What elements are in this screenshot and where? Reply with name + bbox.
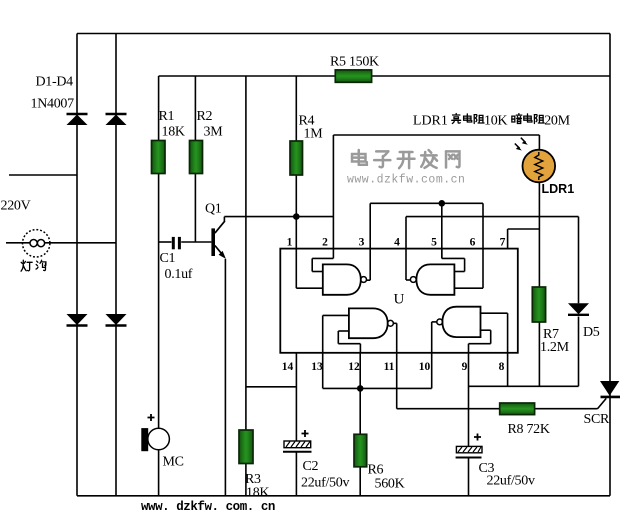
svg-text:560K: 560K <box>375 477 405 492</box>
svg-text:0.1uf: 0.1uf <box>165 267 193 282</box>
svg-text:Q1: Q1 <box>205 201 222 216</box>
svg-text:13: 13 <box>311 361 323 373</box>
svg-text:22uf/50v: 22uf/50v <box>301 476 349 491</box>
svg-text:4: 4 <box>394 237 400 249</box>
svg-text:12: 12 <box>348 361 360 373</box>
svg-text:9: 9 <box>462 361 468 373</box>
svg-text:220V: 220V <box>1 199 31 214</box>
svg-text:14: 14 <box>282 361 294 373</box>
svg-text:D5: D5 <box>583 325 600 340</box>
svg-text:10: 10 <box>419 361 431 373</box>
svg-text:7: 7 <box>500 237 506 249</box>
svg-text:10K: 10K <box>484 113 507 128</box>
svg-text:LDR1: LDR1 <box>413 113 448 128</box>
svg-text:U: U <box>394 292 405 308</box>
svg-text:5: 5 <box>431 237 437 249</box>
svg-text:1M: 1M <box>304 127 324 142</box>
svg-text:LDR1: LDR1 <box>542 182 575 196</box>
svg-text:1.2M: 1.2M <box>540 340 570 355</box>
svg-text:SCR: SCR <box>584 412 611 427</box>
svg-text:www. dzkfw. com. cn: www. dzkfw. com. cn <box>141 500 275 514</box>
svg-text:18K: 18K <box>246 486 269 501</box>
svg-text:D1-D4: D1-D4 <box>36 75 74 90</box>
svg-text:R5 150K: R5 150K <box>330 55 379 70</box>
svg-text:8: 8 <box>499 361 505 373</box>
svg-text:3M: 3M <box>204 125 224 140</box>
svg-text:R6: R6 <box>368 463 384 478</box>
svg-text:1: 1 <box>287 237 293 249</box>
svg-text:3: 3 <box>359 237 365 249</box>
svg-text:R1: R1 <box>159 109 175 124</box>
svg-text:C2: C2 <box>303 459 319 474</box>
svg-text:11: 11 <box>384 361 395 373</box>
svg-text:R2: R2 <box>197 109 213 124</box>
svg-text:R8 72K: R8 72K <box>508 422 550 437</box>
svg-text:22uf/50v: 22uf/50v <box>487 474 535 489</box>
svg-text:C1: C1 <box>160 251 176 266</box>
svg-text:2: 2 <box>322 237 328 249</box>
svg-text:MC: MC <box>163 455 184 470</box>
svg-text:1N4007: 1N4007 <box>31 97 75 112</box>
svg-text:20M: 20M <box>544 113 570 128</box>
svg-text:6: 6 <box>470 237 476 249</box>
svg-text:www.dzkfw.com.cn: www.dzkfw.com.cn <box>347 174 465 187</box>
svg-text:18K: 18K <box>162 125 185 140</box>
